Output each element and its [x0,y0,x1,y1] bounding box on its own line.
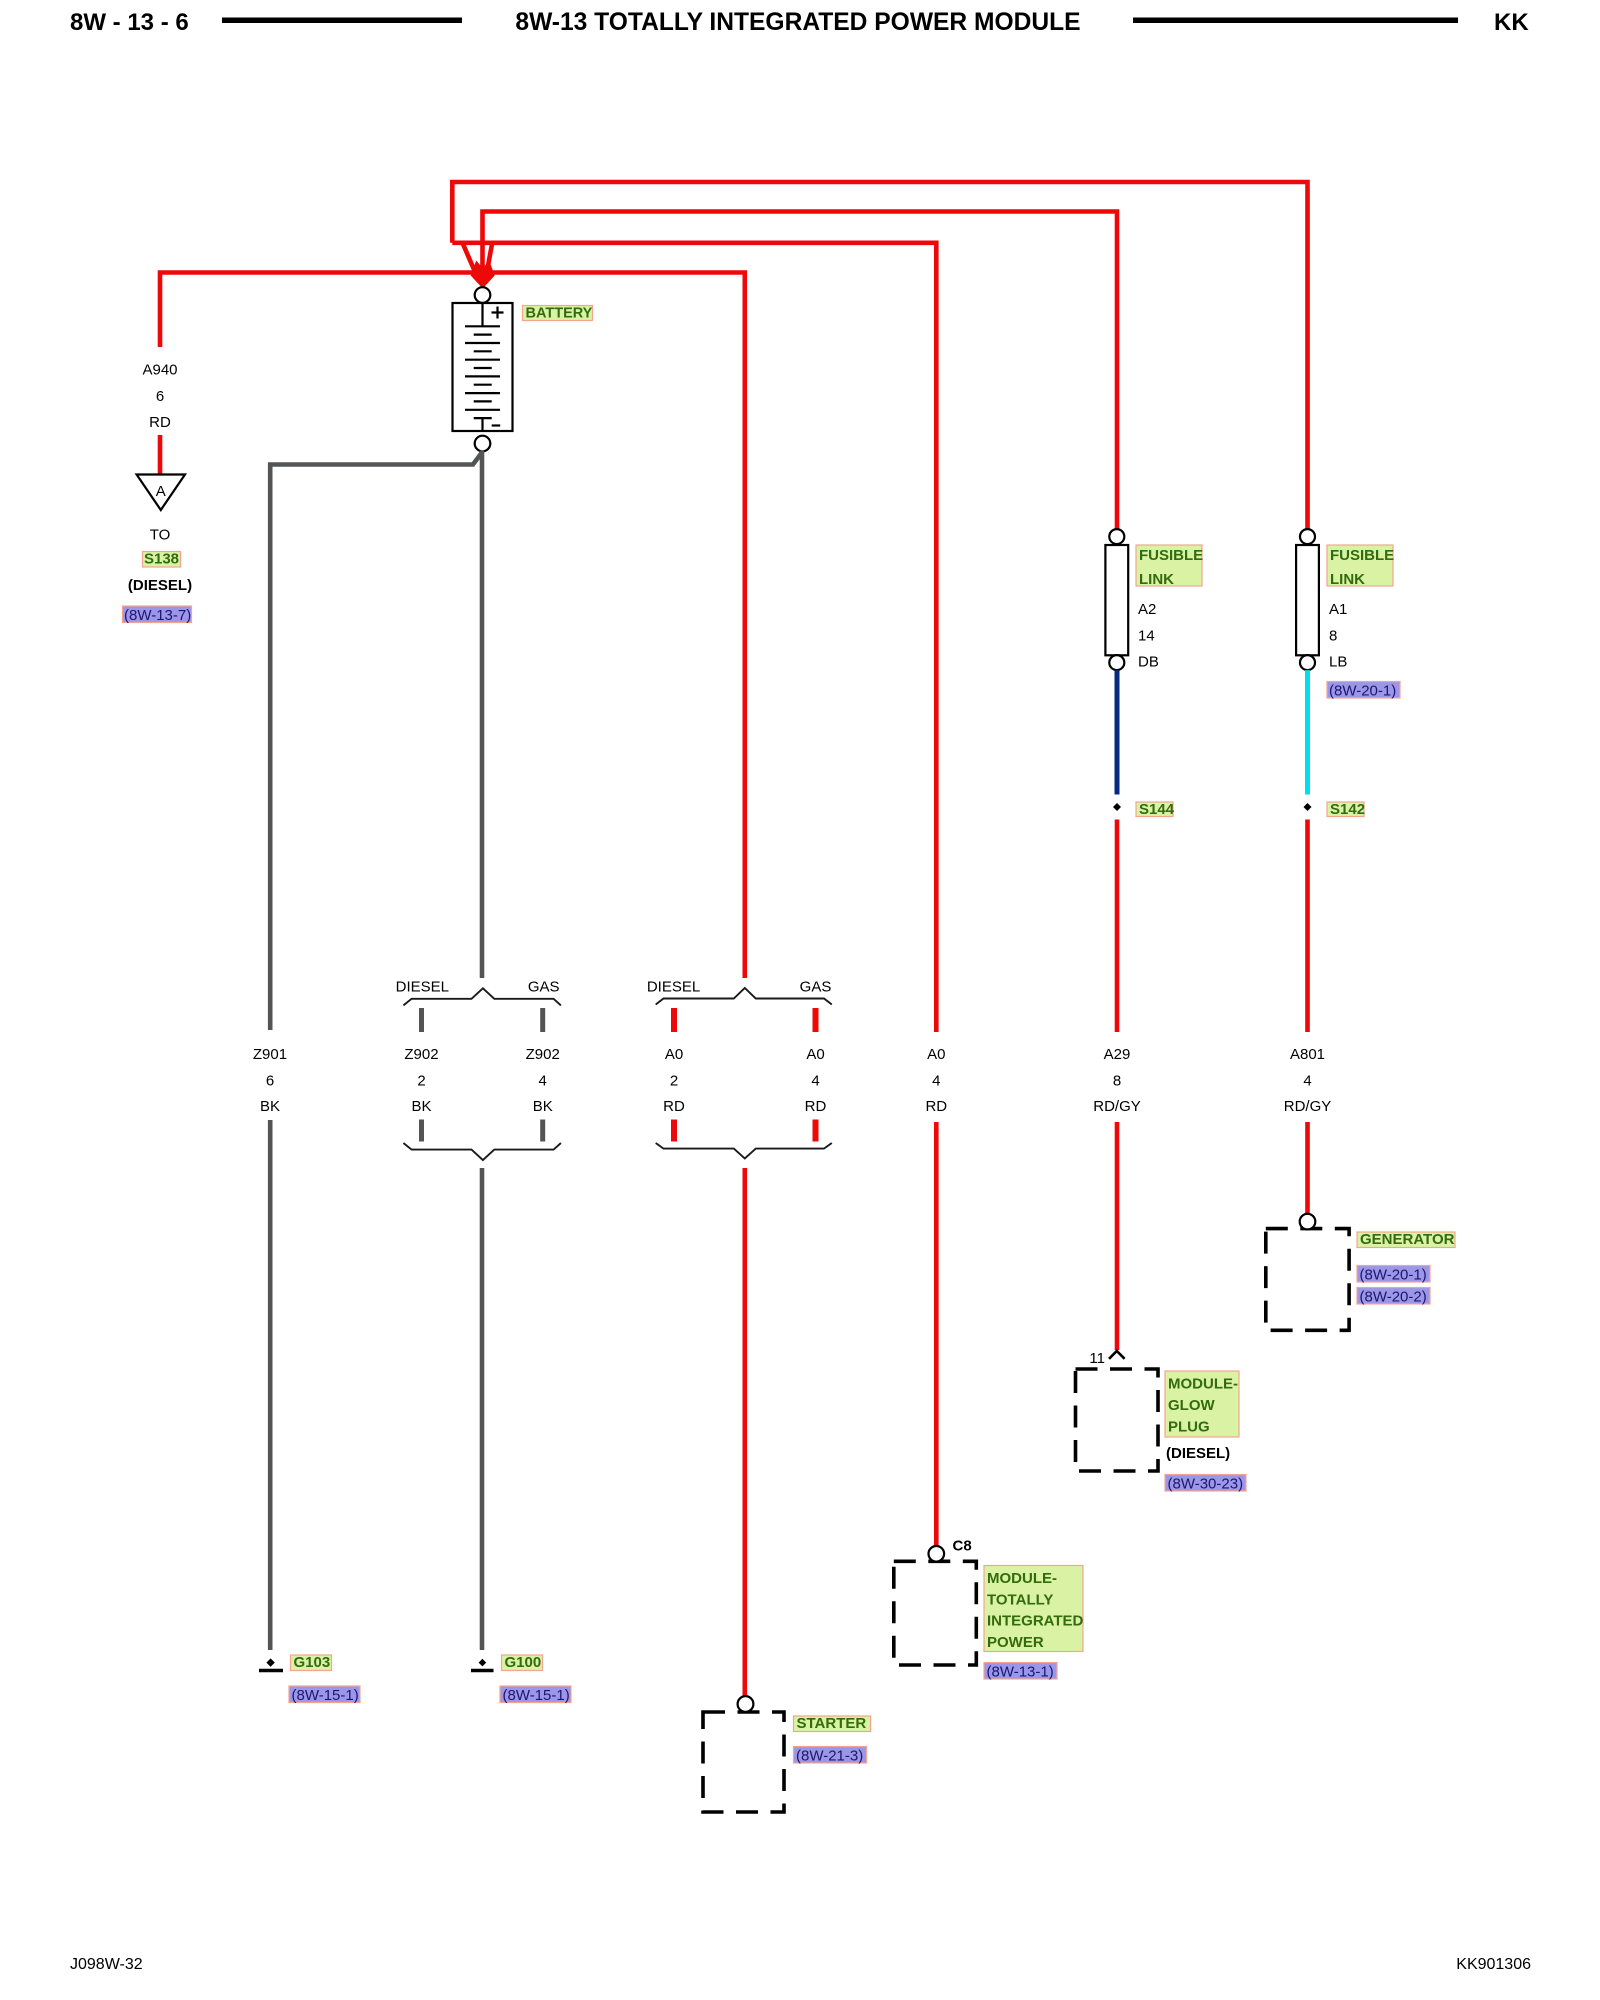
svg-text:TOTALLY: TOTALLY [987,1591,1053,1608]
wire red A801 4 RD/GY upper [1305,820,1310,1033]
wire gray: branch Z901 to G103 [270,453,481,1030]
svg-text:C8: C8 [953,1538,972,1555]
wire red: A940 / starter branch (fourth line) [160,273,745,979]
label A29 8 RD/GY [1093,1046,1141,1115]
label STARTER [794,1715,871,1732]
svg-text:RD: RD [805,1098,827,1115]
wire red A29 8 RD/GY lower to glow plug module [1115,1122,1120,1350]
splice S142 [1304,803,1312,811]
wire gray stub Z902 2 BK top [419,1008,424,1032]
svg-text:(DIESEL): (DIESEL) [1166,1445,1230,1462]
svg-text:2: 2 [417,1072,425,1089]
svg-text:POWER: POWER [987,1634,1044,1651]
splice S144 [1113,803,1121,811]
glow plug module connector chevron [1109,1351,1125,1359]
ground G103 [259,1658,283,1670]
svg-text:14: 14 [1138,627,1155,644]
svg-text:(8W-15-1): (8W-15-1) [292,1687,359,1704]
reference 8W-20-1 (fusible link A1) [1327,682,1400,700]
label G100 [502,1654,543,1671]
label S142 [1327,801,1365,818]
svg-text:BK: BK [411,1098,431,1115]
svg-text:(8W-21-3): (8W-21-3) [796,1748,863,1765]
svg-text:J098W-32: J098W-32 [70,1956,143,1973]
wire gray: battery negative down to splice brace [480,451,485,979]
reference 8W-21-3 (starter) [794,1747,867,1765]
svg-text:RD: RD [925,1098,947,1115]
node S138 [143,551,181,568]
svg-text:6: 6 [156,388,164,405]
svg-text:MODULE-: MODULE- [1168,1376,1238,1393]
starter (dashed component box) [703,1712,784,1812]
svg-text:STARTER: STARTER [797,1715,867,1732]
label A0 2 RD [663,1046,685,1115]
svg-text:S144: S144 [1139,801,1175,818]
label FUSIBLE LINK (A2) [1136,545,1203,588]
label FUSIBLE LINK (A1) [1327,545,1394,588]
label Z902 2 BK [404,1046,438,1115]
label A1 8 LB [1329,601,1347,671]
svg-text:GAS: GAS [528,979,560,996]
label GENERATOR [1357,1231,1455,1248]
wire junction arrow into battery positive [463,244,495,289]
battery positive terminal [475,287,491,303]
starter connector terminal [738,1696,754,1712]
svg-text:FUSIBLE: FUSIBLE [1330,547,1394,564]
splice brace bottom (Z902) [403,1143,561,1160]
wire red: battery feed to fusible link A2 (second line) [483,212,1118,530]
module-totally integrated power (dashed component box) [894,1561,977,1665]
header rule right [1133,18,1458,24]
svg-text:(8W-20-2): (8W-20-2) [1360,1289,1427,1306]
label A0 4 RD (TIPM feed) [925,1046,947,1115]
wire gray stub Z902 4 BK bottom [540,1120,545,1142]
svg-text:TO: TO [150,527,171,544]
svg-text:8W-13 TOTALLY INTEGRATED POWER: 8W-13 TOTALLY INTEGRATED POWER MODULE [515,9,1080,36]
svg-text:G103: G103 [294,1654,331,1671]
svg-text:PLUG: PLUG [1168,1419,1210,1436]
wire red stub A0 2 RD bottom [671,1120,677,1142]
svg-text:DIESEL: DIESEL [647,979,700,996]
svg-text:RD/GY: RD/GY [1284,1098,1332,1115]
label BATTERY [523,306,593,322]
svg-text:INTEGRATED: INTEGRATED [987,1613,1084,1630]
svg-text:A2: A2 [1138,601,1156,618]
wire red A0 4 RD lower segment to connector C8 [934,1122,939,1546]
svg-text:A940: A940 [142,361,177,378]
wire dark blue A2 14 DB [1115,670,1120,794]
svg-text:A29: A29 [1104,1046,1131,1063]
wire red A29 8 RD/GY upper [1115,820,1120,1033]
wire gray stub Z902 2 BK bottom [419,1120,424,1142]
svg-text:8: 8 [1329,627,1337,644]
battery [453,303,513,431]
svg-text:MODULE-: MODULE- [987,1570,1057,1587]
svg-text:(8W-20-1): (8W-20-1) [1329,683,1396,700]
wire red A0 to starter [742,1168,747,1697]
wire gray stub Z902 4 BK top [540,1008,545,1032]
wire red: A0 4 RD to TIPM C8 (third line) [452,243,936,1032]
label Z901 6 BK [253,1046,287,1115]
wire gray Z902 lower segment to ground G100 [480,1168,485,1650]
svg-text:LINK: LINK [1139,571,1174,588]
svg-text:RD: RD [663,1098,685,1115]
header rule left [222,18,462,24]
splice brace top (Z902 diesel/gas) [403,988,561,1005]
svg-text:8W - 13 - 6: 8W - 13 - 6 [70,9,189,36]
battery negative terminal [475,436,491,452]
svg-text:6: 6 [266,1072,274,1089]
svg-text:Z902: Z902 [526,1046,560,1063]
label Z902 4 BK [526,1046,560,1115]
generator (dashed component box) [1266,1229,1349,1331]
svg-text:(DIESEL): (DIESEL) [128,577,192,594]
svg-text:8: 8 [1113,1072,1121,1089]
off-page connector triangle A [137,475,185,511]
wire gray Z901 lower segment to ground G103 [268,1120,273,1650]
svg-text:LINK: LINK [1330,571,1365,588]
splice brace top (A0 diesel/gas) [656,988,832,1005]
fusible link A2 [1105,529,1128,670]
label G103 [291,1654,332,1671]
wire red stub A0 2 RD top [671,1008,677,1032]
svg-text:A1: A1 [1329,601,1347,618]
module-glow plug (dashed component box) [1076,1369,1159,1471]
svg-text:RD/GY: RD/GY [1093,1098,1141,1115]
svg-text:A0: A0 [665,1046,683,1063]
svg-text:KK901306: KK901306 [1456,1956,1531,1973]
svg-text:DB: DB [1138,654,1159,671]
svg-text:Z901: Z901 [253,1046,287,1063]
label A2 14 DB [1138,601,1159,671]
connector C8 terminal [929,1546,945,1562]
svg-text:4: 4 [1303,1072,1311,1089]
wire red stub A0 4 RD bottom [813,1120,819,1142]
svg-text:FUSIBLE: FUSIBLE [1139,547,1203,564]
svg-text:RD: RD [149,414,171,431]
ground G100 [471,1659,494,1671]
svg-text:Z902: Z902 [404,1046,438,1063]
label A0 4 RD (gas) [805,1046,827,1115]
label A801 4 RD/GY [1284,1046,1332,1115]
splice brace bottom (A0) [656,1143,832,1159]
reference 8W-20-1 (generator) [1357,1266,1430,1284]
svg-text:S142: S142 [1330,801,1365,818]
svg-text:BK: BK [533,1098,553,1115]
svg-text:A: A [156,483,166,500]
svg-text:BATTERY: BATTERY [526,306,593,322]
wire red A801 4 RD/GY lower to generator [1305,1122,1310,1214]
svg-text:4: 4 [932,1072,940,1089]
svg-text:(8W-20-1): (8W-20-1) [1360,1267,1427,1284]
svg-text:(8W-13-1): (8W-13-1) [987,1664,1054,1681]
reference 8W-30-23 (glow plug) [1165,1475,1246,1493]
svg-text:GLOW: GLOW [1168,1397,1215,1414]
svg-text:S138: S138 [144,551,179,568]
wire light blue A1 8 LB [1305,670,1310,794]
svg-text:A801: A801 [1290,1046,1325,1063]
wire red stub A0 4 RD top [813,1008,819,1032]
svg-text:2: 2 [670,1072,678,1089]
fusible link A1 [1296,529,1319,670]
label A940 wire [142,361,177,431]
svg-text:KK: KK [1494,9,1529,36]
reference 8W-13-1 (TIPM) [984,1663,1057,1681]
svg-text:(8W-13-7): (8W-13-7) [124,607,191,624]
svg-text:(8W-30-23): (8W-30-23) [1168,1476,1244,1493]
svg-text:A0: A0 [927,1046,945,1063]
svg-text:11: 11 [1089,1350,1105,1367]
wire red A940 6 RD lower segment to triangle A [158,435,163,474]
reference 8W-20-2 (generator) [1357,1288,1430,1306]
svg-text:G100: G100 [505,1654,542,1671]
generator connector terminal [1300,1214,1316,1230]
label MODULE-TOTALLY INTEGRATED POWER [984,1566,1084,1652]
label MODULE-GLOW PLUG [1165,1371,1239,1437]
reference 8W-13-7 [123,606,192,624]
wire red: battery feed to fusible link A1 (top line) [452,182,1307,529]
svg-text:4: 4 [811,1072,819,1089]
svg-text:GAS: GAS [800,979,832,996]
svg-text:(8W-15-1): (8W-15-1) [503,1687,570,1704]
svg-text:A0: A0 [806,1046,824,1063]
svg-text:LB: LB [1329,654,1347,671]
label S144 [1136,801,1175,818]
svg-text:DIESEL: DIESEL [396,979,449,996]
svg-text:BK: BK [260,1098,280,1115]
reference 8W-15-1 (G100) [500,1686,571,1704]
reference 8W-15-1 (G103) [289,1686,360,1704]
svg-text:4: 4 [539,1072,547,1089]
svg-text:GENERATOR: GENERATOR [1360,1231,1455,1248]
